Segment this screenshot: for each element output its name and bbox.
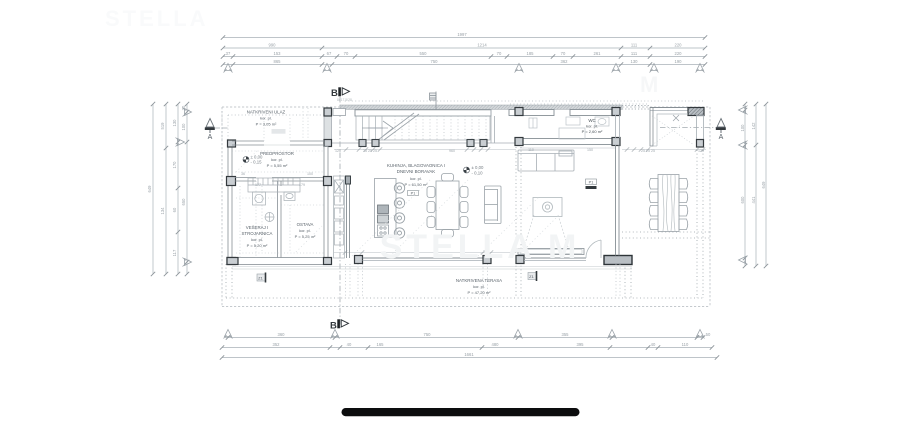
svg-text:179: 179 — [299, 183, 305, 187]
svg-text:70: 70 — [344, 51, 349, 56]
svg-text:990: 990 — [269, 43, 277, 48]
marker A right — [716, 119, 726, 142]
staircase dashed treads (above cut) — [395, 116, 486, 140]
svg-text:DNEVNI BORAVAK: DNEVNI BORAVAK — [397, 169, 435, 174]
WC block walls — [509, 108, 620, 146]
svg-text:355: 355 — [562, 332, 570, 337]
svg-text:± 0,00: ± 0,00 — [472, 165, 485, 170]
roof overhang dashed rectangle — [222, 107, 710, 307]
svg-text:P = 47,20 m²: P = 47,20 m² — [468, 290, 492, 295]
svg-text:120: 120 — [335, 149, 341, 153]
svg-text:PREDPROSTOR: PREDPROSTOR — [260, 151, 294, 156]
entrance interior dotted projections — [232, 108, 324, 258]
svg-text:VEŠERAJ I: VEŠERAJ I — [246, 225, 268, 230]
section line A horizontal dash-dot — [215, 127, 717, 130]
svg-text:111: 111 — [631, 43, 638, 48]
interior dim row above south wall — [334, 252, 516, 254]
staircase treads — [356, 116, 490, 140]
marker B bottom — [330, 319, 349, 331]
svg-text:P1: P1 — [589, 181, 594, 185]
svg-text:KUHINJA, BLAGOVAONICA I: KUHINJA, BLAGOVAONICA I — [387, 163, 445, 168]
svg-text:1997: 1997 — [457, 32, 467, 37]
svg-text:kor. pl.: kor. pl. — [299, 228, 311, 233]
svg-text:110: 110 — [682, 342, 689, 347]
svg-text:441: 441 — [751, 196, 756, 204]
svg-text:352: 352 — [273, 342, 281, 347]
svg-text:550: 550 — [420, 51, 428, 56]
svg-text:25 25 25: 25 25 25 — [363, 149, 377, 153]
svg-text:117: 117 — [172, 249, 177, 256]
svg-text:8x17,5/28: 8x17,5/28 — [337, 98, 352, 102]
svg-text:865: 865 — [274, 59, 282, 64]
svg-text:480: 480 — [492, 342, 500, 347]
svg-text:NATKRIVENA TERASA: NATKRIVENA TERASA — [456, 278, 502, 283]
svg-text:111: 111 — [631, 51, 638, 56]
svg-text:36: 36 — [241, 172, 245, 176]
left wing: entrance pier — [324, 108, 346, 147]
step edge below south wall — [232, 267, 632, 270]
svg-text:OSTAVA: OSTAVA — [297, 222, 314, 227]
wall between great room and WC zone (x=491) — [491, 109, 495, 143]
svg-text:A: A — [719, 134, 724, 141]
svg-text:395: 395 — [577, 342, 585, 347]
dark sliding element — [604, 256, 632, 265]
interior dim row under north wall — [334, 148, 706, 150]
svg-text:362: 362 — [561, 59, 569, 64]
svg-text:960: 960 — [449, 149, 455, 153]
svg-text:kor. pl.: kor. pl. — [251, 237, 263, 242]
svg-text:142: 142 — [751, 122, 756, 130]
svg-text:70: 70 — [561, 51, 566, 56]
north wall of great room with column pairs — [332, 140, 516, 147]
svg-text:kor. pl.: kor. pl. — [271, 157, 283, 162]
svg-text:220: 220 — [675, 51, 683, 56]
right open block — [650, 108, 704, 148]
sideboard below TV — [518, 249, 584, 255]
svg-text:kor. pl.: kor. pl. — [410, 176, 422, 181]
P1 labels — [408, 179, 597, 196]
left wing: predprostor north wall — [232, 141, 324, 145]
svg-text:750: 750 — [424, 332, 432, 337]
elevation marker living room — [464, 165, 485, 176]
svg-text:37: 37 — [226, 51, 231, 56]
svg-text:P = 2,60 m²: P = 2,60 m² — [582, 129, 603, 134]
svg-text:1661: 1661 — [464, 352, 474, 357]
svg-text:360: 360 — [278, 332, 286, 337]
svg-text:261: 261 — [594, 51, 602, 56]
svg-text:750: 750 — [431, 59, 439, 64]
terrace inner dotted boundary — [226, 147, 710, 298]
svg-text:519: 519 — [160, 122, 165, 130]
door leaf with arc — [586, 240, 601, 258]
svg-text:25 25 25: 25 25 25 — [641, 149, 655, 153]
svg-text:STELLA: STELLA — [105, 6, 209, 31]
east wall of living room — [616, 145, 620, 256]
left wing: south wall with columns — [227, 258, 332, 265]
beam over stairs — [355, 110, 491, 116]
svg-text:130: 130 — [172, 119, 177, 127]
svg-text:P = 5,20 m²: P = 5,20 m² — [247, 243, 268, 248]
svg-text:1214: 1214 — [477, 43, 487, 48]
svg-text:120: 120 — [698, 149, 704, 153]
left wing: interior wall veseraj/ostava (x=278) — [278, 181, 282, 258]
svg-text:600: 600 — [740, 196, 745, 204]
svg-text:P = 5,55 m²: P = 5,55 m² — [267, 163, 288, 168]
svg-text:67: 67 — [327, 51, 332, 56]
svg-text:649: 649 — [147, 185, 152, 193]
svg-text:Z1: Z1 — [258, 276, 263, 281]
svg-text:STROJARNICA: STROJARNICA — [242, 231, 273, 236]
svg-text:130: 130 — [631, 59, 639, 64]
svg-text:150: 150 — [587, 148, 593, 152]
section line B vertical dash-dot — [339, 97, 341, 330]
svg-text:100: 100 — [740, 124, 745, 132]
svg-text:Z1: Z1 — [529, 274, 534, 279]
svg-text:165: 165 — [377, 342, 385, 347]
stair break line + arrow — [362, 113, 419, 140]
svg-text:220: 220 — [675, 43, 683, 48]
svg-text:A: A — [208, 134, 213, 141]
WC interior fixtures — [529, 117, 609, 139]
svg-text:kor. pl.: kor. pl. — [473, 284, 485, 289]
svg-text:P = 5,25 m²: P = 5,25 m² — [295, 234, 316, 239]
svg-text:134: 134 — [160, 207, 165, 215]
svg-text:B: B — [330, 321, 337, 332]
svg-text:STELLA M: STELLA M — [380, 228, 581, 266]
marker A left — [205, 119, 215, 142]
svg-text:153: 153 — [274, 51, 282, 56]
top hatched roof band — [340, 105, 622, 109]
svg-text:- 0,15: - 0,15 — [251, 160, 263, 165]
south wall of great room: glass doors — [355, 256, 587, 264]
svg-text:40: 40 — [347, 342, 352, 347]
left wing: west wall — [227, 140, 236, 265]
svg-text:50: 50 — [706, 332, 711, 337]
svg-text:70: 70 — [497, 51, 502, 56]
svg-text:650: 650 — [181, 198, 186, 206]
svg-text:NATKRIVENI ULAZ: NATKRIVENI ULAZ — [247, 110, 286, 115]
left wing: wall predprostor / veseraj (y=177) — [235, 178, 324, 182]
svg-text:P = 61,50 m²: P = 61,50 m² — [405, 182, 429, 187]
Z1 labels — [257, 271, 537, 283]
svg-text:649: 649 — [761, 181, 766, 189]
dark wall pier right of counter — [346, 176, 351, 258]
svg-text:170: 170 — [172, 161, 177, 169]
left wing: east wall — [324, 147, 332, 265]
marker B top — [331, 87, 352, 102]
inner dotted overhang line top — [222, 101, 705, 140]
svg-text:WC: WC — [588, 118, 595, 123]
svg-text:M: M — [640, 72, 661, 97]
svg-text:100: 100 — [181, 123, 186, 131]
svg-text:177: 177 — [255, 183, 261, 187]
svg-text:110: 110 — [528, 148, 534, 152]
svg-text:P = 3,05 m²: P = 3,05 m² — [256, 122, 277, 127]
svg-text:40: 40 — [651, 342, 656, 347]
svg-text:60: 60 — [172, 207, 177, 212]
svg-text:P1: P1 — [411, 192, 416, 196]
faint roof projection dotted diagonals — [236, 150, 560, 256]
svg-text:190: 190 — [675, 59, 683, 64]
svg-text:kor. pl.: kor. pl. — [586, 124, 598, 129]
svg-text:185: 185 — [527, 51, 535, 56]
svg-text:- 0,10: - 0,10 — [472, 171, 484, 176]
stair flag symbol — [430, 92, 437, 111]
svg-text:kor. pl.: kor. pl. — [260, 116, 272, 121]
elevation marker entrance — [243, 155, 263, 165]
projection dotted verticals below south wall columns — [346, 264, 621, 298]
svg-text:100: 100 — [307, 172, 313, 176]
